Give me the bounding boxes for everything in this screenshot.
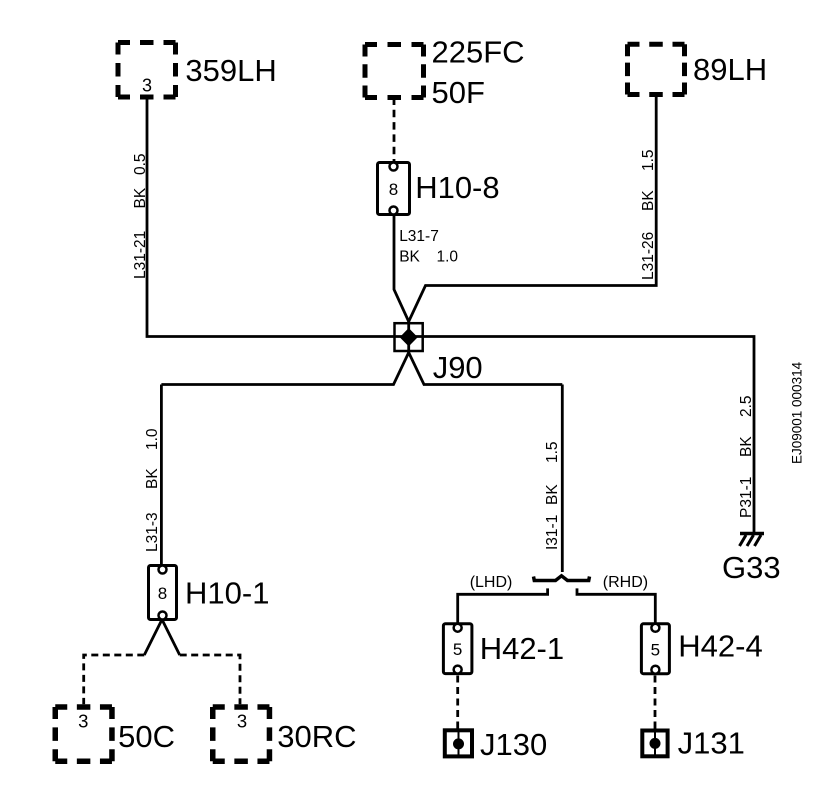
svg-text:50C: 50C — [118, 719, 175, 754]
svg-text:G33: G33 — [722, 550, 781, 585]
svg-text:1.0: 1.0 — [144, 428, 161, 450]
svg-text:5: 5 — [453, 640, 462, 659]
svg-text:BK: BK — [144, 468, 161, 489]
svg-text:J90: J90 — [433, 350, 483, 385]
svg-text:J131: J131 — [678, 726, 745, 761]
svg-text:BK: BK — [132, 187, 149, 208]
svg-text:3: 3 — [78, 711, 88, 732]
svg-text:359LH: 359LH — [185, 53, 276, 88]
svg-text:L31-21: L31-21 — [132, 231, 149, 279]
svg-text:H10-1: H10-1 — [185, 576, 269, 611]
svg-text:1.0: 1.0 — [437, 249, 459, 266]
svg-text:8: 8 — [389, 180, 398, 199]
svg-text:5: 5 — [651, 640, 660, 659]
svg-text:EJ09001 000314: EJ09001 000314 — [790, 361, 805, 464]
svg-text:L31-3: L31-3 — [144, 512, 161, 552]
svg-text:BK: BK — [544, 484, 561, 505]
svg-text:30RC: 30RC — [277, 719, 356, 754]
svg-text:225FC: 225FC — [432, 34, 525, 69]
svg-text:0.5: 0.5 — [132, 153, 149, 175]
svg-text:(LHD): (LHD) — [470, 574, 513, 591]
svg-text:1.5: 1.5 — [544, 441, 561, 463]
svg-text:H42-1: H42-1 — [480, 631, 564, 666]
svg-text:L31-7: L31-7 — [399, 228, 439, 245]
svg-text:1.5: 1.5 — [640, 149, 657, 171]
svg-text:H10-8: H10-8 — [415, 170, 499, 205]
svg-text:50F: 50F — [432, 75, 485, 110]
svg-text:8: 8 — [158, 584, 167, 603]
svg-text:(RHD): (RHD) — [603, 574, 648, 591]
svg-text:BK: BK — [738, 436, 755, 457]
svg-text:BK: BK — [640, 190, 657, 211]
svg-text:89LH: 89LH — [693, 52, 767, 87]
svg-text:J130: J130 — [480, 727, 547, 762]
svg-text:2.5: 2.5 — [738, 395, 755, 417]
svg-text:3: 3 — [237, 711, 247, 732]
svg-text:3: 3 — [142, 76, 152, 96]
svg-text:BK: BK — [399, 249, 420, 266]
svg-text:L31-26: L31-26 — [640, 232, 657, 280]
svg-text:I31-1: I31-1 — [544, 515, 561, 550]
svg-text:P31-1: P31-1 — [738, 477, 755, 518]
svg-text:H42-4: H42-4 — [678, 629, 762, 664]
